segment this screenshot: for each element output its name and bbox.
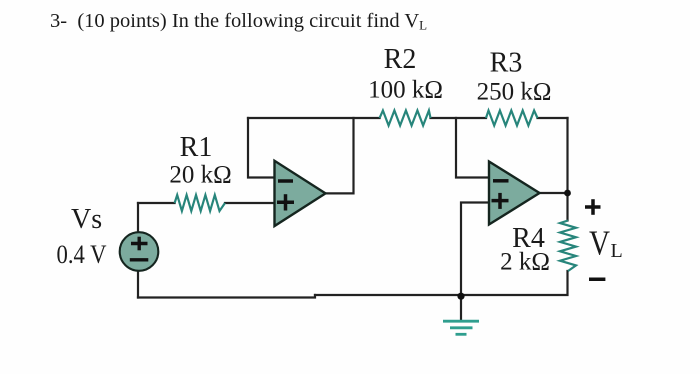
svg-text:100 kΩ: 100 kΩ — [368, 77, 443, 104]
svg-text:3- (10 points) In the followi: 3- (10 points) In the following circuit … — [50, 10, 427, 33]
svg-text:250 kΩ: 250 kΩ — [477, 79, 552, 106]
svg-text:V: V — [589, 224, 610, 263]
svg-text:L: L — [611, 240, 623, 262]
svg-text:Vs: Vs — [71, 204, 102, 235]
svg-text:R3: R3 — [490, 48, 523, 79]
svg-text:0.4 V: 0.4 V — [57, 239, 107, 269]
svg-text:20 kΩ: 20 kΩ — [169, 162, 231, 189]
svg-text:2 kΩ: 2 kΩ — [500, 249, 550, 276]
svg-text:R2: R2 — [384, 44, 417, 75]
svg-text:R1: R1 — [180, 132, 213, 163]
